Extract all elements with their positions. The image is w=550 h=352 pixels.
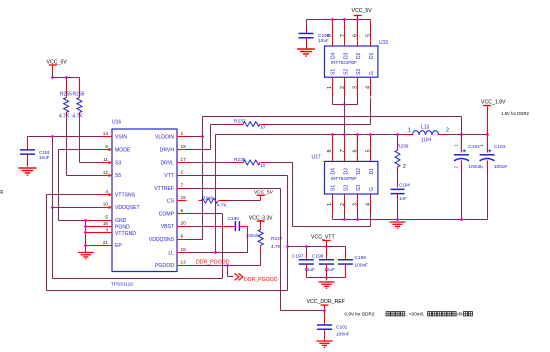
svg-text:14: 14: [103, 131, 109, 136]
wire PGND bottom rail: [333, 219, 488, 221]
svg-text:R255: R255: [60, 92, 72, 98]
svg-text:10uF: 10uF: [318, 38, 329, 44]
wire COMP row: [187, 213, 223, 215]
svg-text:13: 13: [181, 260, 187, 265]
transistor U17 IRF7832PBF: [325, 161, 378, 194]
svg-text:7: 7: [340, 150, 346, 153]
svg-text:12: 12: [103, 170, 109, 175]
svg-text:VCC_VTT: VCC_VTT: [311, 235, 335, 241]
wire R238 right: [267, 162, 293, 164]
svg-text:R239: R239: [397, 144, 409, 150]
wire VTTSNS down: [46, 195, 48, 291]
wire VTT row: [187, 175, 288, 177]
junction C192 bottom: [460, 218, 463, 221]
svg-text:4.7K: 4.7K: [72, 114, 83, 120]
wire to VCC_DDR_REF: [281, 310, 325, 312]
wire VTT down: [287, 176, 289, 247]
svg-text:, >20mil,: , >20mil,: [407, 312, 425, 317]
svg-text:4.7K: 4.7K: [217, 203, 228, 208]
svg-text:VDDQSET: VDDQSET: [115, 205, 140, 211]
pin 16 PGND: [103, 226, 113, 228]
wire C195 to LL: [247, 227, 249, 253]
svg-text:D1: D1: [369, 52, 375, 59]
svg-text:C198: C198: [312, 254, 324, 260]
junction C197: [305, 245, 308, 248]
junction VCC_DDR_REF: [323, 309, 326, 312]
wire VCC_5V net down: [52, 137, 54, 208]
svg-text:11: 11: [103, 157, 108, 162]
svg-text:R247: R247: [271, 236, 283, 242]
node GND chain: [85, 221, 87, 250]
wire U15 source to LL rail: [344, 97, 346, 135]
ground (C191): [19, 168, 37, 175]
svg-text:G: G: [369, 71, 375, 75]
svg-text:10: 10: [260, 125, 266, 130]
svg-text:C193: C193: [494, 144, 506, 150]
svg-text:VLDOIN: VLDOIN: [155, 134, 174, 140]
wire VTT caps bottom rail: [307, 277, 346, 279]
svg-text:1: 1: [408, 128, 411, 134]
pin 15 CS: [177, 200, 187, 202]
svg-text:2: 2: [340, 86, 346, 89]
svg-text:DRVH: DRVH: [160, 147, 175, 153]
wire VTTSNS row: [47, 194, 103, 196]
pin 10 VDDQSET: [103, 207, 113, 209]
wire U17 source bracket to PGND rail: [332, 214, 334, 220]
wire VDDQ output node: [447, 134, 488, 136]
wire VTTGND row: [86, 232, 103, 234]
svg-text:20: 20: [181, 221, 187, 226]
svg-text:C195: C195: [228, 216, 240, 222]
wire DRVL: [187, 162, 237, 164]
svg-text:VCC_5V: VCC_5V: [352, 8, 373, 14]
svg-text:21: 21: [103, 240, 109, 245]
svg-text:10: 10: [103, 202, 109, 207]
capacitor C201 100nF: [324, 311, 326, 325]
svg-text:1: 1: [181, 131, 184, 136]
svg-text:S3: S3: [356, 185, 362, 191]
svg-text:10: 10: [260, 163, 266, 168]
wire VBST row: [187, 226, 221, 228]
capacitor C199 100nF: [345, 247, 347, 253]
svg-text:2: 2: [446, 128, 449, 134]
svg-text:S1: S1: [331, 69, 337, 75]
svg-text:VDDQSNS: VDDQSNS: [149, 237, 175, 243]
pin 4 G (U17): [370, 195, 372, 214]
wire R255 to S5: [66, 117, 68, 176]
junction C194/ground: [396, 218, 399, 221]
svg-text:DDR_PGOOD: DDR_PGOOD: [196, 260, 230, 266]
pin 7 VTTREF: [177, 188, 187, 190]
svg-text:R240: R240: [202, 196, 214, 202]
wire U15 source bracket: [332, 97, 334, 105]
junction C192/VDDQ line: [460, 133, 463, 136]
clipped text fragment left edge: [1, 191, 3, 193]
pin 19 DRVH: [177, 149, 187, 151]
capacitor C192 100uF: [461, 135, 463, 153]
ground (U16 GND/EP): [78, 253, 94, 259]
svg-text:C199: C199: [355, 255, 367, 261]
svg-text:1: 1: [327, 203, 333, 206]
junction C198/VCC_VTT: [325, 245, 328, 248]
svg-text:EP: EP: [115, 243, 122, 249]
pin 7 D3 (U15): [344, 20, 346, 47]
pin 2 VTT: [177, 175, 187, 177]
pin 8 D4 (U15): [332, 20, 334, 47]
ground (VTT caps): [319, 282, 335, 288]
svg-text:8: 8: [181, 208, 184, 213]
wire bottom line1: [53, 278, 223, 280]
svg-text:VTTGND: VTTGND: [115, 231, 136, 237]
pin 4 VTTSNS: [103, 194, 113, 196]
svg-text:G: G: [369, 187, 375, 191]
svg-text:10uF: 10uF: [39, 155, 50, 160]
svg-text:VCC_1.8V: VCC_1.8V: [481, 100, 506, 106]
pin 14 VSIN: [103, 136, 113, 138]
wire R256 to S3: [79, 117, 81, 163]
wire DRVH: [187, 149, 211, 151]
svg-text:7: 7: [340, 34, 346, 37]
svg-text:1.8V for DDR2: 1.8V for DDR2: [501, 111, 530, 116]
svg-text:1UH: 1UH: [421, 138, 431, 144]
svg-text:U15: U15: [379, 40, 388, 46]
svg-text:4.7K: 4.7K: [59, 114, 70, 120]
wire PGOOD row: [187, 265, 261, 267]
pin 17 DRVL: [177, 162, 187, 164]
svg-text:PGND: PGND: [115, 224, 130, 230]
wire LL vertical to switch rail: [215, 135, 217, 253]
svg-text:D2: D2: [356, 168, 362, 175]
junction ground VTT caps: [325, 276, 328, 279]
wire VDDQ net to output: [203, 116, 462, 118]
svg-text:R237: R237: [234, 118, 246, 124]
wire CS pullup: [229, 200, 261, 202]
pin 20 VBST: [177, 226, 187, 228]
pin 5 D1 (U15): [370, 20, 372, 47]
svg-text:S2: S2: [343, 69, 349, 75]
svg-text:100nF: 100nF: [336, 331, 350, 337]
svg-text:6: 6: [105, 144, 108, 149]
svg-text:IRF7832PBF: IRF7832PBF: [331, 176, 357, 181]
ground (C201): [317, 341, 333, 347]
ground (PGND rail): [390, 222, 406, 228]
power VCC_5V (CS pullup): [257, 194, 265, 196]
svg-text:18: 18: [181, 247, 187, 252]
wire bottom line2: [47, 290, 288, 292]
wire up to VTT node: [287, 247, 289, 291]
svg-text:2: 2: [181, 170, 184, 175]
off-page connector DDR_PGOOD: [227, 266, 229, 277]
pin 4 G (U15): [370, 78, 372, 97]
wire down-left: [52, 208, 54, 279]
pin 1 S1 (U15): [332, 78, 334, 97]
op-amp/controller U16 TPS51116 box: [112, 129, 177, 272]
svg-text:D3: D3: [343, 52, 349, 59]
svg-text:R238: R238: [234, 157, 246, 163]
wire VTTREF down: [280, 189, 282, 311]
svg-text:CS: CS: [167, 199, 175, 205]
svg-text:D4: D4: [331, 52, 337, 59]
wire VDDQ feedback drop: [461, 117, 463, 135]
svg-text:7: 7: [181, 183, 184, 188]
wire VSIN row: [28, 136, 103, 138]
inductor L13 1UH: [405, 134, 413, 136]
svg-text:VTT: VTT: [164, 173, 174, 179]
svg-text:16: 16: [103, 221, 109, 226]
resistor R255 4.7K: [66, 78, 68, 98]
svg-text:100uF: 100uF: [494, 164, 508, 170]
junction VTT node: [286, 245, 289, 248]
svg-text:VBST: VBST: [161, 224, 174, 230]
wire GND row stub: [86, 220, 103, 222]
svg-text:9: 9: [181, 234, 184, 239]
svg-text:U16: U16: [112, 120, 121, 126]
wire VCC_5V to pullups: [53, 77, 80, 79]
wire up to COMP: [222, 214, 224, 279]
capacitor C194 1nF: [391, 189, 405, 193]
svg-text:100nF: 100nF: [355, 262, 369, 268]
junction VLDOIN: [201, 135, 204, 138]
svg-text:LL: LL: [168, 251, 174, 257]
svg-text:VCC_DDR_REF: VCC_DDR_REF: [307, 299, 345, 305]
svg-text:D2: D2: [356, 52, 362, 59]
ground (C190): [297, 49, 315, 56]
junction VSIN / VCC_5V drop: [51, 135, 54, 138]
resistor R239: [397, 135, 399, 143]
svg-text:COMP: COMP: [159, 212, 175, 218]
svg-text:DDR_PGOOD: DDR_PGOOD: [244, 277, 278, 283]
junction PGOOD: [226, 264, 229, 267]
wire MODE row: [59, 149, 103, 151]
pin 9 VDDQSNS: [177, 239, 187, 241]
svg-text:8: 8: [327, 34, 333, 37]
svg-text:5: 5: [366, 150, 372, 153]
resistor R256 4.7K: [79, 78, 81, 98]
svg-text:VSIN: VSIN: [115, 134, 127, 140]
svg-text:17: 17: [181, 157, 187, 162]
wire R247 to PGOOD: [260, 253, 262, 266]
svg-text:15: 15: [181, 195, 187, 200]
pin 2 S2 (U15): [344, 78, 346, 97]
capacitor C190 10uF: [306, 27, 308, 34]
wire to U17 gate: [293, 226, 371, 228]
pin 8 COMP: [177, 213, 187, 215]
pin 18 LL: [177, 252, 187, 254]
capacitor C195 100nF (bootstrap): [221, 226, 235, 228]
wire R239 to C194: [397, 173, 399, 188]
svg-text:C197: C197: [292, 254, 304, 260]
svg-text:3: 3: [105, 227, 108, 232]
svg-text:DRVL: DRVL: [161, 160, 175, 166]
capacitor C198 10uF: [326, 247, 328, 260]
svg-text:VTTREF: VTTREF: [154, 186, 174, 192]
wire VCC_5V rail: [307, 19, 371, 21]
wire PGND row: [86, 226, 103, 228]
svg-text:C201: C201: [336, 325, 348, 331]
svg-text:10uF: 10uF: [304, 267, 315, 273]
svg-text:S2: S2: [343, 185, 349, 191]
svg-text:3: 3: [353, 203, 359, 206]
wire VTTREF row: [187, 188, 281, 190]
svg-text:2: 2: [403, 164, 406, 170]
pin 21 EP: [103, 245, 113, 247]
svg-text:8: 8: [327, 150, 333, 153]
svg-text:S3: S3: [356, 69, 362, 75]
pin 8 D4 (U17): [332, 135, 334, 162]
pin 11 S3: [103, 162, 113, 164]
capacitor C191 10uF: [20, 150, 35, 154]
junction VCC_5V / R255: [51, 76, 54, 79]
junction LL: [214, 251, 217, 254]
svg-text:PGOOD: PGOOD: [155, 263, 174, 269]
wire VDDQ net vertical: [202, 117, 204, 240]
resistor R247 4.7K: [258, 229, 263, 245]
junction U15 sources: [343, 103, 346, 106]
svg-text:VTTSNS: VTTSNS: [115, 193, 136, 199]
pin 3 VTTGND: [103, 232, 113, 234]
svg-text:5: 5: [366, 34, 372, 37]
resistor R240 4.7K: [199, 200, 202, 202]
junction R239 top: [396, 133, 399, 136]
capacitor C193 100uF: [487, 135, 489, 153]
svg-text:C194: C194: [399, 182, 410, 187]
pin 2 S2 (U17): [344, 195, 346, 214]
pin 1 VLDOIN: [177, 136, 187, 138]
wire R237 to U15 gate: [267, 124, 371, 126]
svg-text:4: 4: [105, 189, 108, 194]
wire down to C191: [27, 137, 29, 143]
pin 3 S3 (U17): [357, 195, 359, 214]
junction VCC_1.8V: [486, 133, 489, 136]
svg-text:19: 19: [181, 144, 187, 149]
pin 6 D2 (U17): [357, 135, 359, 162]
svg-text:5: 5: [105, 215, 108, 220]
resistor R238 10: [237, 162, 244, 164]
svg-text:IRF7821PBF: IRF7821PBF: [331, 60, 357, 65]
svg-text:4.7K: 4.7K: [271, 244, 282, 249]
svg-text:clk: clk: [457, 312, 463, 317]
capacitor C197 10uF: [306, 247, 308, 253]
svg-text:S3: S3: [115, 160, 121, 166]
wire C190 drop: [306, 20, 308, 27]
wire down around U17: [292, 163, 294, 227]
wire to GND chain: [59, 220, 86, 222]
svg-text:GND: GND: [115, 218, 127, 224]
svg-text:MODE: MODE: [115, 147, 131, 153]
svg-text:6: 6: [353, 150, 359, 153]
pin 12 S5: [103, 175, 113, 177]
svg-text:1nF: 1nF: [399, 196, 407, 201]
wire VDDQSET row: [53, 207, 103, 209]
pin 3 S3 (U15): [357, 78, 359, 97]
junction VDDQSET: [51, 206, 54, 209]
wire VDDQSNS row: [187, 239, 203, 241]
svg-text:D3: D3: [343, 168, 349, 175]
svg-text:D4: D4: [331, 168, 337, 175]
wire LL switch rail: [216, 134, 405, 136]
pin 6 D2 (U15): [357, 20, 359, 47]
svg-text:0.9V for DDR2: 0.9V for DDR2: [345, 312, 375, 317]
svg-text:S5: S5: [115, 173, 121, 179]
wire VLDOIN: [187, 136, 203, 138]
svg-text:10uF: 10uF: [324, 267, 335, 273]
junction R255 top: [65, 76, 68, 79]
svg-text:3: 3: [353, 86, 359, 89]
svg-text:4: 4: [366, 203, 372, 206]
svg-text:S1: S1: [331, 185, 337, 191]
pin 13 PGOOD: [177, 265, 187, 267]
wire EP row: [86, 245, 103, 247]
svg-text:D1: D1: [369, 168, 375, 175]
pin 1 S1 (U17): [332, 195, 334, 214]
svg-text:U17: U17: [312, 155, 321, 161]
pin 7 D3 (U17): [344, 135, 346, 162]
svg-text:2: 2: [340, 203, 346, 206]
wire LL row: [187, 252, 248, 254]
svg-text:1: 1: [327, 86, 333, 89]
pin 6 MODE: [103, 149, 113, 151]
svg-text:L13: L13: [421, 124, 430, 130]
pin 5 GND: [103, 220, 113, 222]
svg-text:6: 6: [353, 34, 359, 37]
svg-text:VCC_5V: VCC_5V: [254, 190, 274, 196]
svg-text:4: 4: [366, 86, 372, 89]
wire VTT cap rail: [288, 246, 346, 248]
transistor U15 IRF7821PBF: [325, 46, 378, 77]
resistor R237 10: [237, 124, 244, 126]
pin 5 D1 (U17): [370, 135, 372, 162]
wire MODE down: [58, 150, 60, 221]
svg-text:TPS51116: TPS51116: [111, 282, 133, 288]
svg-text:R256: R256: [73, 92, 85, 98]
